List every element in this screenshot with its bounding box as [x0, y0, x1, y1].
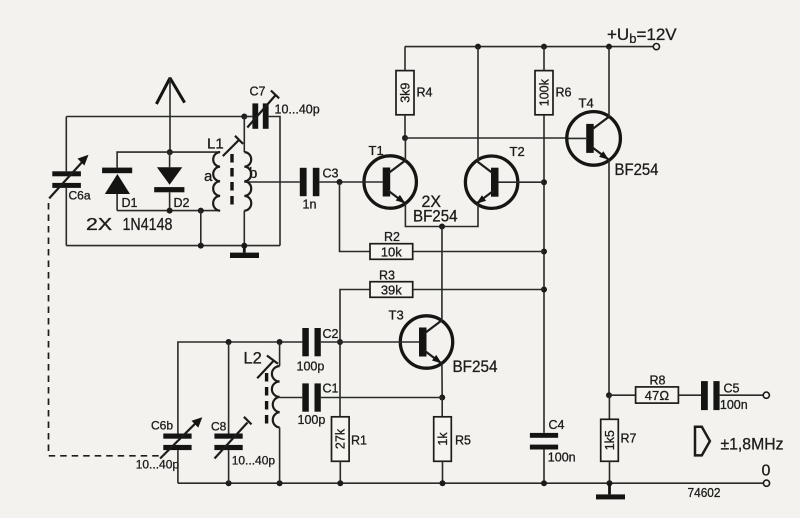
- L2 adjust arrow: [257, 356, 278, 379]
- svg-text:3k9: 3k9: [398, 83, 412, 103]
- diode D2: [154, 152, 189, 211]
- node R7 bottom / ground: [607, 480, 613, 486]
- svg-text:100p: 100p: [298, 413, 326, 427]
- wire C7 right / box right edge: [269, 117, 280, 246]
- svg-text:27k: 27k: [334, 428, 348, 449]
- svg-text:C8: C8: [211, 420, 227, 434]
- wire box bottom edge: [66, 245, 280, 247]
- wire T3 emitter: [441, 364, 443, 398]
- node rail-T4: [606, 44, 612, 50]
- svg-text:0: 0: [762, 463, 771, 480]
- wire T3 collector: [441, 227, 443, 321]
- svg-text:C3: C3: [323, 167, 339, 181]
- svg-text:R7: R7: [621, 432, 637, 446]
- svg-text:C1: C1: [323, 382, 339, 396]
- wire R2 right: [413, 251, 544, 253]
- resistor R4: [396, 71, 433, 115]
- node D2 bottom: [167, 208, 173, 214]
- node rail-R6: [541, 44, 547, 50]
- node R5 bottom: [440, 480, 446, 486]
- L2 core: [265, 373, 268, 426]
- svg-text:1k: 1k: [436, 432, 450, 446]
- svg-text:D1: D1: [122, 196, 138, 210]
- svg-text:C4: C4: [549, 418, 565, 432]
- wire box top edge: [66, 116, 244, 118]
- node X / T2 base: [541, 179, 547, 185]
- node T3 emitter / C1 / R5: [439, 395, 445, 401]
- node emitters T1 T2: [439, 224, 445, 230]
- node L2 top: [277, 339, 283, 345]
- transistor T4: [567, 112, 621, 166]
- node C8 top: [226, 339, 232, 345]
- node rail-T2: [475, 44, 481, 50]
- svg-text:L2: L2: [244, 350, 262, 368]
- wire T1 emitter: [405, 204, 442, 227]
- node X / R2: [541, 249, 547, 255]
- wire R3 right: [413, 289, 544, 291]
- wire C1 to T3 emitter: [321, 397, 442, 399]
- wire L2 tap to C1: [280, 397, 303, 399]
- node box top / L1b / C7: [241, 114, 247, 120]
- diode D1: [102, 168, 137, 211]
- svg-text:R8: R8: [650, 374, 666, 388]
- wire C4 bottom: [543, 450, 545, 484]
- wire emitter node to R7: [608, 395, 610, 419]
- resistor R1: [332, 417, 368, 462]
- node C2 / R3 / T3 base: [337, 339, 343, 345]
- capacitor C6a: [49, 155, 91, 203]
- output range arrow: [695, 427, 710, 456]
- svg-text:2X: 2X: [86, 214, 112, 234]
- wire T4 emitter: [608, 160, 610, 395]
- transistor T1: [364, 156, 416, 208]
- wire T4 collector: [608, 47, 610, 117]
- antenna: [156, 77, 184, 152]
- node X / R3: [541, 287, 547, 293]
- terminal output: [763, 392, 769, 398]
- capacitor C4: [530, 418, 576, 465]
- node C8 bottom: [226, 480, 232, 486]
- wire L1a bottom to ground edge: [200, 211, 202, 246]
- L1 adjust arrow: [223, 136, 243, 156]
- svg-text:1n: 1n: [303, 198, 317, 212]
- node C4 bottom: [541, 480, 547, 486]
- wire T1 base to R2: [340, 182, 371, 252]
- svg-text:T1: T1: [369, 143, 384, 158]
- wire emitter to R5: [441, 398, 443, 418]
- node bottom edge left: [198, 243, 204, 249]
- node L1a bottom: [198, 208, 204, 214]
- svg-text:a: a: [204, 168, 213, 185]
- node T4 emitter / R8 / R7: [606, 392, 612, 398]
- svg-text:BF254: BF254: [453, 358, 498, 376]
- svg-text:b: b: [249, 165, 257, 182]
- resistor R8: [636, 374, 679, 404]
- wire C2 to T3 base: [321, 341, 401, 343]
- ground symbol main: [596, 483, 625, 499]
- wire tap b to C3: [244, 181, 299, 183]
- svg-text:39k: 39k: [381, 282, 402, 297]
- wire T2 collector: [477, 47, 479, 161]
- node L1b bottom / ground: [241, 243, 247, 249]
- svg-text:C5: C5: [724, 382, 740, 396]
- svg-text:74602: 74602: [688, 485, 721, 500]
- wire node X vertical: [543, 115, 545, 433]
- svg-text:C7: C7: [250, 85, 266, 99]
- svg-text:100n: 100n: [720, 398, 748, 412]
- wire T1 collector: [404, 138, 406, 161]
- wire R4 top: [404, 47, 406, 71]
- svg-text:+Ub=12V: +Ub=12V: [607, 25, 677, 46]
- svg-text:±1,8MHz: ±1,8MHz: [721, 435, 784, 454]
- svg-text:100n: 100n: [548, 451, 576, 465]
- wire node to R8: [609, 394, 636, 396]
- wire R3 left to T3 base node: [340, 290, 370, 417]
- capacitor C2: [297, 327, 339, 374]
- capacitor C3: [300, 167, 339, 212]
- inductor L1 winding b: [244, 117, 251, 246]
- node L2 bottom: [277, 480, 283, 486]
- wire R6 top: [543, 47, 545, 71]
- svg-text:T3: T3: [389, 308, 404, 323]
- svg-text:R6: R6: [556, 86, 572, 100]
- svg-text:100p: 100p: [297, 360, 325, 374]
- resistor R3: [370, 269, 413, 298]
- node antenna / D2 / wire: [167, 149, 173, 155]
- wire R1 bottom: [339, 461, 341, 483]
- svg-text:C6a: C6a: [69, 189, 91, 203]
- transistor T3: [400, 316, 452, 368]
- svg-text:10k: 10k: [381, 244, 402, 259]
- terminal +Ub: [653, 44, 659, 50]
- capacitor C7: [244, 85, 319, 129]
- svg-text:R1: R1: [351, 434, 367, 448]
- svg-text:100k: 100k: [537, 78, 551, 106]
- dashed gang link C6a-C6b: [49, 203, 160, 456]
- L1 core: [230, 154, 233, 210]
- wire R8 to C5: [678, 394, 701, 396]
- wire ground bus: [178, 482, 764, 484]
- svg-text:1k5: 1k5: [603, 430, 617, 450]
- svg-text:D2: D2: [174, 196, 190, 210]
- wire diode row bottom: [117, 210, 220, 212]
- wire R7 bottom: [609, 461, 611, 483]
- svg-text:L1: L1: [207, 136, 224, 153]
- terminal 0: [763, 480, 769, 486]
- wire C3 to T1 base: [319, 181, 364, 183]
- wire box left edge lower: [65, 188, 67, 246]
- svg-text:C6b: C6b: [151, 419, 173, 433]
- svg-text:R5: R5: [455, 434, 471, 448]
- wire R5 bottom: [442, 461, 444, 483]
- wire diode row top: [117, 152, 220, 168]
- wire T2 emitter: [442, 204, 478, 227]
- ground symbol input box: [230, 246, 259, 258]
- wire tank top: [178, 342, 302, 434]
- transistor T2: [465, 156, 517, 208]
- wire T4 base from R4 node: [405, 137, 567, 139]
- resistor R7: [601, 419, 637, 461]
- wire C5 to output terminal: [720, 394, 764, 396]
- inductor L2: [272, 342, 280, 483]
- wire R4 bottom: [404, 115, 406, 138]
- svg-text:BF254: BF254: [615, 161, 659, 179]
- node C3/T1/R2: [337, 179, 343, 185]
- svg-text:R3: R3: [379, 269, 395, 283]
- wire box left edge upper: [65, 117, 67, 172]
- svg-text:R2: R2: [384, 230, 400, 244]
- capacitor C8: [211, 342, 275, 483]
- capacitor C5: [701, 381, 748, 412]
- resistor R6: [535, 71, 572, 115]
- svg-text:T4: T4: [579, 96, 594, 111]
- svg-text:C2: C2: [323, 327, 339, 341]
- svg-text:1N4148: 1N4148: [123, 214, 173, 234]
- svg-text:10...40p: 10...40p: [232, 454, 276, 468]
- resistor R5: [434, 417, 471, 462]
- capacitor C1: [298, 382, 339, 428]
- resistor R2: [370, 230, 413, 259]
- wire +Ub rail: [405, 46, 653, 48]
- svg-text:R4: R4: [417, 86, 433, 100]
- capacitor C6b: [136, 417, 203, 471]
- inductor L1 winding a: [213, 152, 220, 211]
- svg-text:10...40p: 10...40p: [136, 458, 180, 472]
- node R1 bottom: [337, 480, 343, 486]
- svg-text:10...40p: 10...40p: [275, 103, 320, 117]
- svg-text:BF254: BF254: [413, 208, 458, 226]
- node R4/T1 collector: [402, 135, 408, 141]
- svg-text:47Ω: 47Ω: [645, 388, 669, 403]
- wire C6b bottom to bus: [177, 450, 179, 483]
- svg-text:T2: T2: [510, 144, 525, 159]
